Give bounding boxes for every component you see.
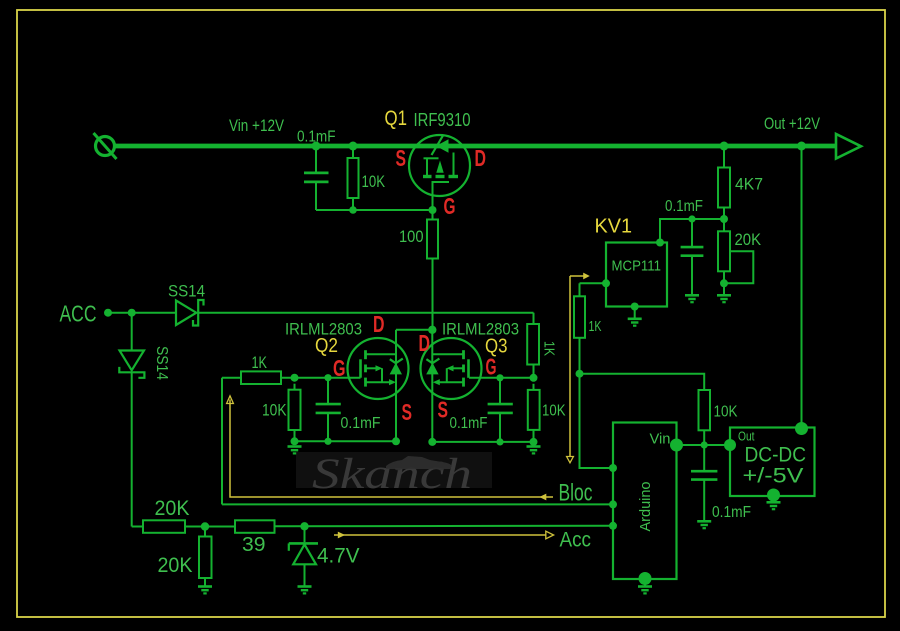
svg-text:100: 100 xyxy=(399,228,424,246)
svg-text:ACC: ACC xyxy=(60,301,97,327)
svg-text:+/-5V: +/-5V xyxy=(743,464,805,488)
svg-text:Bloc: Bloc xyxy=(559,480,593,507)
svg-text:4K7: 4K7 xyxy=(735,175,763,194)
svg-text:IRF9310: IRF9310 xyxy=(414,110,471,130)
svg-text:Out: Out xyxy=(738,430,755,444)
svg-text:0.1mF: 0.1mF xyxy=(665,198,703,215)
svg-text:MCP111: MCP111 xyxy=(612,258,662,275)
svg-text:20K: 20K xyxy=(158,554,193,577)
svg-text:SS14: SS14 xyxy=(153,346,170,380)
svg-text:G: G xyxy=(333,355,346,381)
svg-text:0.1mF: 0.1mF xyxy=(341,415,381,432)
svg-text:10K: 10K xyxy=(714,404,738,421)
svg-text:D: D xyxy=(373,311,385,337)
svg-text:4.7V: 4.7V xyxy=(317,545,360,568)
svg-text:1K: 1K xyxy=(589,318,602,335)
svg-text:SS14: SS14 xyxy=(168,282,205,301)
svg-text:S: S xyxy=(438,397,449,423)
svg-text:1K: 1K xyxy=(252,354,268,372)
svg-text:Vin: Vin xyxy=(650,431,671,448)
svg-text:Q2: Q2 xyxy=(315,334,338,357)
svg-text:20K: 20K xyxy=(155,497,190,520)
svg-text:Arduino: Arduino xyxy=(637,482,654,532)
svg-text:S: S xyxy=(402,399,413,425)
svg-text:Acc: Acc xyxy=(560,528,592,552)
svg-text:G: G xyxy=(486,354,497,380)
svg-text:D: D xyxy=(419,330,431,356)
svg-text:Q1: Q1 xyxy=(385,106,408,130)
svg-text:10K: 10K xyxy=(542,403,566,420)
svg-text:Out +12V: Out +12V xyxy=(764,115,820,133)
svg-text:0.1mF: 0.1mF xyxy=(712,504,751,521)
svg-text:39: 39 xyxy=(242,534,266,556)
svg-text:10K: 10K xyxy=(362,172,386,191)
svg-text:D: D xyxy=(475,145,487,171)
svg-text:0.1mF: 0.1mF xyxy=(450,415,488,432)
svg-text:20K: 20K xyxy=(735,231,762,249)
svg-text:KV1: KV1 xyxy=(595,216,633,238)
svg-text:S: S xyxy=(396,145,407,171)
svg-text:Vin +12V: Vin +12V xyxy=(229,117,284,135)
svg-text:1K: 1K xyxy=(541,341,558,356)
svg-text:0.1mF: 0.1mF xyxy=(297,129,336,146)
svg-text:10K: 10K xyxy=(262,402,287,420)
svg-text:G: G xyxy=(444,193,456,219)
svg-text:Skanch: Skanch xyxy=(312,451,472,498)
